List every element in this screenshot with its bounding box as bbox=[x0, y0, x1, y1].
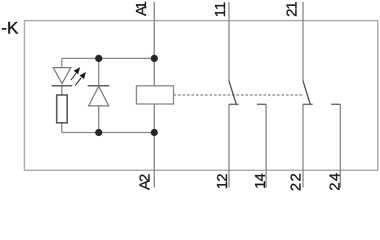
svg-text:A2: A2 bbox=[137, 174, 154, 190]
svg-text:12: 12 bbox=[214, 173, 231, 189]
svg-text:14: 14 bbox=[252, 173, 269, 189]
svg-text:A1: A1 bbox=[133, 1, 150, 16]
svg-text:21: 21 bbox=[284, 1, 301, 17]
svg-text:-K: -K bbox=[1, 19, 19, 38]
svg-text:11: 11 bbox=[212, 2, 229, 17]
svg-text:22: 22 bbox=[288, 173, 305, 191]
svg-text:24: 24 bbox=[327, 173, 344, 191]
